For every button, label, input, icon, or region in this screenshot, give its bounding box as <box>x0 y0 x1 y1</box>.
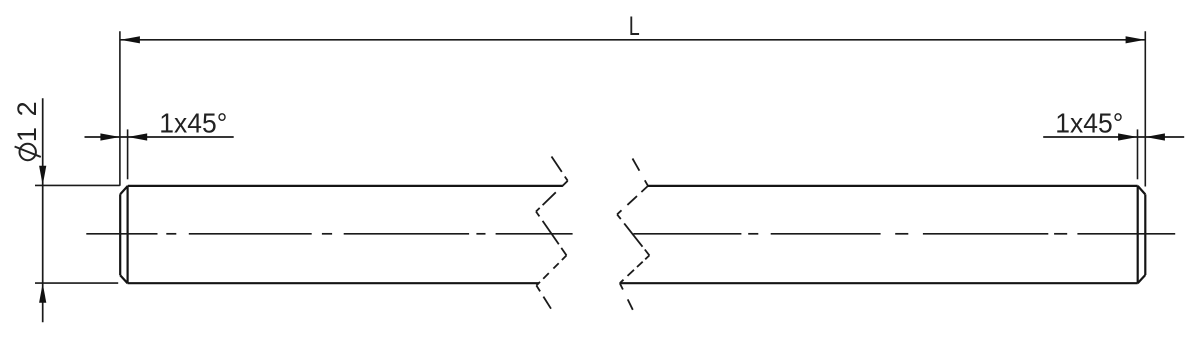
chamfer dimension left: extension line <box>127 129 129 179</box>
right chamfer bottom diagonal <box>1138 275 1146 283</box>
break line right zigzag <box>617 159 649 310</box>
center line <box>86 233 1175 235</box>
break line left zigzag <box>536 157 568 309</box>
dimension L: left extension line <box>119 31 121 186</box>
shaft bottom edge left portion <box>128 282 539 284</box>
shaft top edge right portion <box>648 185 1138 187</box>
left chamfer top diagonal <box>120 186 128 194</box>
chamfer dimension right: left-pointing arrowhead <box>1145 133 1165 140</box>
chamfer dimension left: left-pointing arrowhead <box>128 133 148 140</box>
svg-text:1x45°: 1x45° <box>159 107 227 138</box>
dimension diameter 12: bottom arrowhead <box>39 283 46 303</box>
svg-text:L: L <box>629 11 640 41</box>
chamfer dimension right: right-pointing arrowhead <box>1118 133 1138 140</box>
dimension diameter 12: bottom extension line <box>35 282 118 284</box>
dimension L: left arrowhead <box>120 36 139 43</box>
dimension diameter 12: diameter symbol circle <box>20 144 36 160</box>
dimension diameter 12: top arrowhead <box>39 166 46 186</box>
shaft bottom edge right portion <box>620 282 1138 284</box>
dimension diameter 12: diameter symbol slash <box>15 147 41 157</box>
dimension L: right arrowhead <box>1126 36 1146 43</box>
left end face <box>119 194 121 275</box>
left chamfer bottom diagonal <box>120 275 127 283</box>
dimension diameter 12: dimension line <box>42 98 44 322</box>
left chamfer edge line <box>126 186 128 283</box>
right chamfer top diagonal <box>1138 186 1146 195</box>
dimension L: right extension line <box>1144 31 1146 186</box>
dimension diameter 12: top extension line <box>35 184 120 186</box>
chamfer dimension right: dimension line <box>1043 136 1184 138</box>
right chamfer edge line <box>1137 186 1139 283</box>
svg-text:1x45°: 1x45° <box>1055 107 1123 138</box>
dimension L: dimension line <box>120 39 1145 41</box>
right end face <box>1144 194 1146 275</box>
shaft top edge left portion <box>128 185 563 187</box>
chamfer dimension left: right-pointing arrowhead <box>100 133 120 140</box>
chamfer dimension right: extension line <box>1137 129 1139 179</box>
chamfer dimension left: dimension line <box>85 136 234 138</box>
